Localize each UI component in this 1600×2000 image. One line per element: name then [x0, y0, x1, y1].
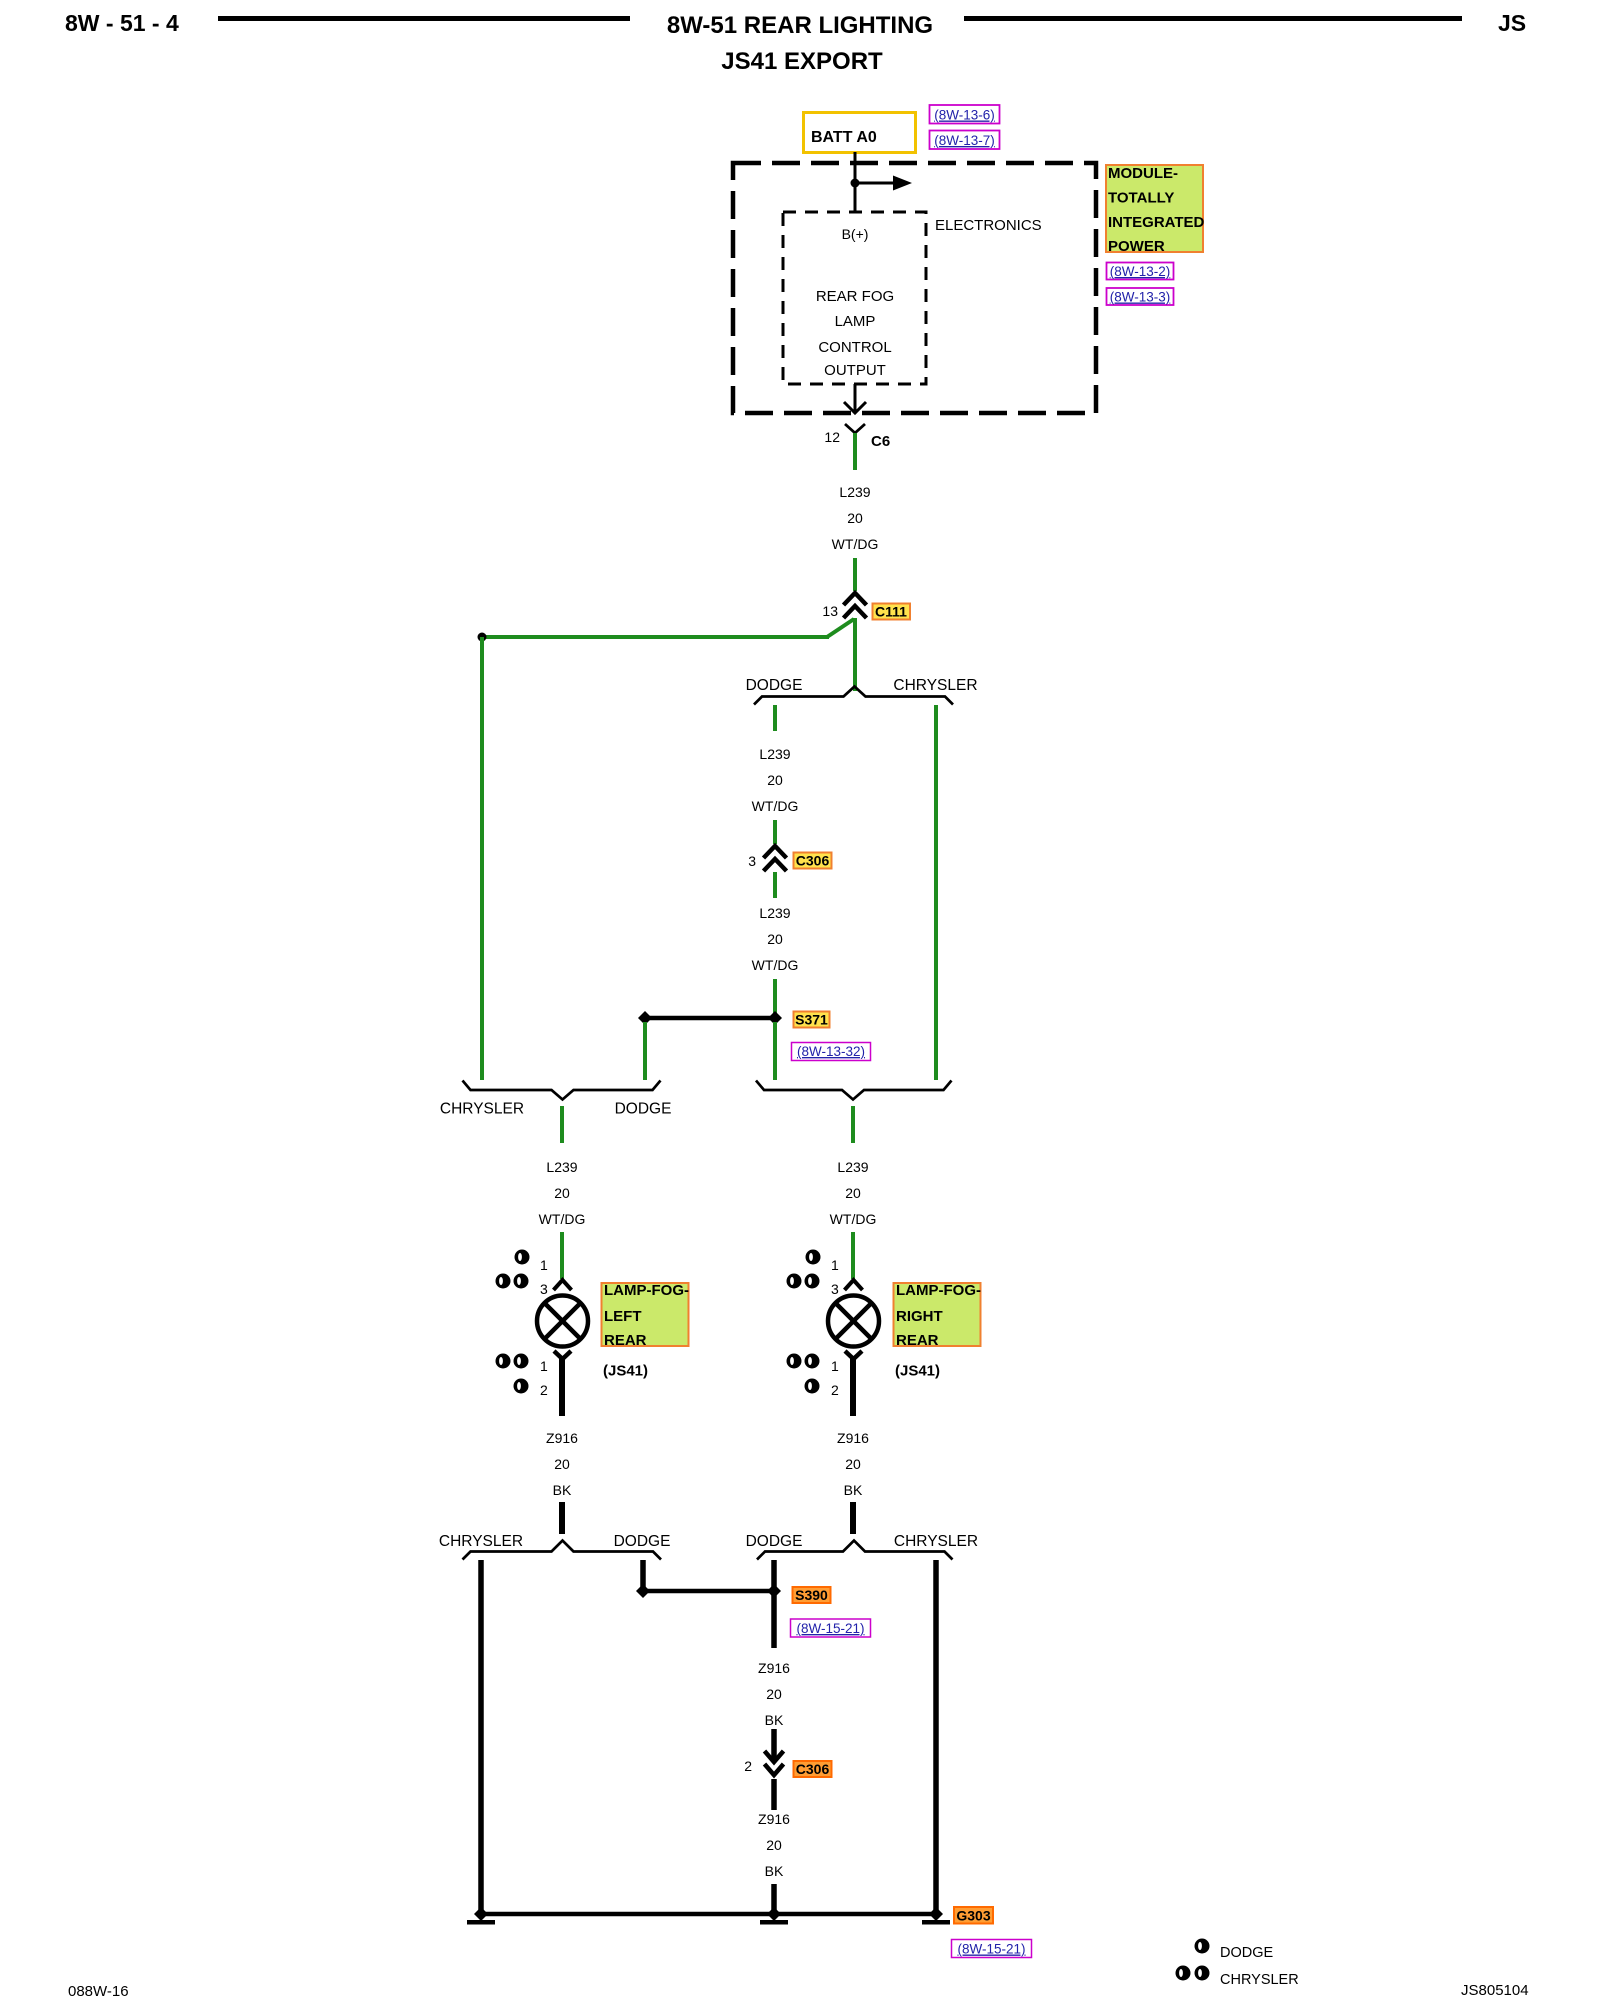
- svg-text:REAR: REAR: [604, 1332, 647, 1349]
- brace merge CHRYSLER/DODGE left lamp: [440, 1081, 671, 1118]
- svg-text:DODGE: DODGE: [615, 1101, 672, 1118]
- footer sheet number left: [68, 1983, 129, 2000]
- svg-text:REAR: REAR: [896, 1332, 939, 1349]
- svg-text:8W-51 REAR LIGHTING: 8W-51 REAR LIGHTING: [667, 12, 933, 39]
- svg-text:8W - 51 - 4: 8W - 51 - 4: [65, 10, 179, 36]
- link 8W-13-32: [792, 1043, 871, 1061]
- svg-text:BK: BK: [765, 1712, 784, 1728]
- lamp left fog rear: [537, 1280, 588, 1359]
- svg-text:1: 1: [831, 1257, 839, 1273]
- svg-text:L239: L239: [837, 1159, 868, 1175]
- svg-text:MODULE-: MODULE-: [1108, 165, 1178, 182]
- svg-text:(8W-13-2): (8W-13-2): [1110, 264, 1171, 279]
- svg-text:2: 2: [831, 1382, 839, 1398]
- wire L239 green from C6: [853, 433, 857, 470]
- svg-text:S371: S371: [795, 1012, 828, 1028]
- pin 2 right lamp bottom: [831, 1382, 839, 1398]
- svg-text:(8W-15-21): (8W-15-21): [796, 1621, 864, 1636]
- pin 1 left lamp bottom: [540, 1358, 548, 1374]
- svg-text:WT/DG: WT/DG: [832, 536, 879, 552]
- svg-text:Z916: Z916: [758, 1811, 790, 1827]
- svg-text:JS805104: JS805104: [1461, 1982, 1529, 1999]
- wire label L239 20 WT/DG right: [830, 1159, 877, 1227]
- svg-text:POWER: POWER: [1108, 238, 1165, 255]
- wire label L239 20 WT/DG: [752, 746, 799, 814]
- header rule left: [218, 16, 630, 21]
- wire: [773, 872, 777, 898]
- wire: [559, 1502, 565, 1534]
- module label MODULE-TOTALLY INTEGRATED POWER: [1106, 165, 1205, 255]
- svg-text:CHRYSLER: CHRYSLER: [1220, 1972, 1299, 1988]
- svg-text:(JS41): (JS41): [895, 1363, 940, 1380]
- connector C306 pin 3: [748, 846, 786, 871]
- svg-text:20: 20: [767, 772, 783, 788]
- brace split DODGE/CHRYSLER under C111: [746, 677, 978, 705]
- svg-text:LEFT: LEFT: [604, 1308, 642, 1325]
- ground symbol middle: [760, 1907, 788, 1925]
- node BATT A0: [804, 113, 916, 153]
- svg-text:1: 1: [540, 1257, 548, 1273]
- svg-text:BK: BK: [553, 1482, 572, 1498]
- wire: [773, 820, 777, 844]
- pin 2 left lamp bottom: [540, 1382, 548, 1398]
- svg-text:DODGE: DODGE: [746, 1533, 803, 1550]
- wire label Z916 20 BK right: [837, 1430, 869, 1498]
- svg-text:LAMP-FOG-: LAMP-FOG-: [604, 1282, 689, 1299]
- svg-text:(8W-15-21): (8W-15-21): [957, 1942, 1025, 1957]
- svg-text:BK: BK: [844, 1482, 863, 1498]
- pin icons left lamp top: [496, 1250, 530, 1289]
- lamp right fog rear: [828, 1280, 879, 1359]
- svg-text:2: 2: [744, 1758, 752, 1774]
- header JS top right: [1498, 10, 1526, 36]
- svg-text:(8W-13-7): (8W-13-7): [934, 133, 995, 148]
- connector C111 pin 13: [822, 593, 866, 619]
- splice S390: [636, 1584, 781, 1598]
- wire label L239 20 WT/DG left: [539, 1159, 586, 1227]
- link 8W-15-21 lower: [952, 1940, 1032, 1958]
- wire BATT A0 to B(+): [854, 152, 857, 212]
- svg-text:20: 20: [766, 1686, 782, 1702]
- svg-text:L239: L239: [546, 1159, 577, 1175]
- svg-text:CHRYSLER: CHRYSLER: [439, 1533, 523, 1550]
- wire chrysler branch right long: [934, 705, 938, 1080]
- svg-text:13: 13: [822, 603, 838, 619]
- footer drawing number right: [1461, 1982, 1529, 1999]
- header rule right: [964, 16, 1462, 21]
- link 8W-13-6: [930, 105, 1000, 124]
- svg-text:20: 20: [766, 1837, 782, 1853]
- svg-text:L239: L239: [759, 746, 790, 762]
- page number top left: [65, 10, 179, 36]
- svg-text:BK: BK: [765, 1863, 784, 1879]
- svg-text:C306: C306: [796, 853, 830, 869]
- wire dodge branch: [773, 705, 777, 731]
- wire: [851, 1232, 855, 1279]
- svg-text:20: 20: [554, 1185, 570, 1201]
- wire: [771, 1779, 777, 1810]
- svg-text:(8W-13-6): (8W-13-6): [934, 108, 995, 123]
- pin 3 left lamp: [540, 1281, 548, 1297]
- svg-text:WT/DG: WT/DG: [752, 798, 799, 814]
- svg-text:CHRYSLER: CHRYSLER: [440, 1101, 524, 1118]
- wire label Z916 20 BK bottom: [758, 1811, 790, 1879]
- label C306: [794, 853, 832, 869]
- svg-text:C306: C306: [796, 1761, 830, 1777]
- wire dodge right stub: [771, 1560, 777, 1587]
- svg-text:Z916: Z916: [546, 1430, 578, 1446]
- ground bus G303: [481, 1912, 936, 1917]
- svg-text:(8W-13-32): (8W-13-32): [797, 1044, 865, 1059]
- wire: [771, 1729, 777, 1762]
- svg-text:TOTALLY: TOTALLY: [1108, 190, 1174, 207]
- wire stub below left splice diamond: [643, 1022, 647, 1080]
- label LAMP-FOG-LEFT REAR: [602, 1282, 689, 1380]
- module U1 TIPM dashed box: [733, 163, 1096, 413]
- svg-text:JS41 EXPORT: JS41 EXPORT: [721, 48, 883, 75]
- link 8W-13-2: [1107, 263, 1174, 280]
- svg-text:C6: C6: [871, 433, 890, 450]
- arrow feed inside TIPM: [855, 176, 912, 191]
- legend chrysler icons: [1176, 1966, 1299, 1989]
- pin icons left lamp bottom: [496, 1354, 529, 1394]
- wire to left lamp: [560, 1106, 564, 1143]
- svg-text:WT/DG: WT/DG: [539, 1211, 586, 1227]
- svg-text:REAR FOG: REAR FOG: [816, 288, 894, 305]
- svg-text:DODGE: DODGE: [614, 1533, 671, 1550]
- svg-text:1: 1: [540, 1358, 548, 1374]
- svg-text:1: 1: [831, 1358, 839, 1374]
- pin 1 right lamp top: [831, 1257, 839, 1273]
- svg-text:CHRYSLER: CHRYSLER: [894, 1533, 978, 1550]
- svg-text:LAMP: LAMP: [835, 313, 876, 330]
- pin 1 left lamp top: [540, 1257, 548, 1273]
- svg-text:(JS41): (JS41): [603, 1363, 648, 1380]
- svg-text:L239: L239: [759, 905, 790, 921]
- wire label Z916 20 BK left: [546, 1430, 578, 1498]
- svg-text:3: 3: [540, 1281, 548, 1297]
- brace split DODGE/CHRYSLER right ground: [746, 1533, 978, 1560]
- link 8W-13-7: [930, 131, 1000, 150]
- svg-text:3: 3: [831, 1281, 839, 1297]
- page title: [667, 12, 933, 75]
- svg-text:BATT A0: BATT A0: [811, 129, 877, 146]
- link 8W-15-21 upper: [791, 1619, 871, 1637]
- svg-text:088W-16: 088W-16: [68, 1983, 129, 2000]
- wire: [771, 1884, 777, 1914]
- svg-text:G303: G303: [956, 1908, 990, 1924]
- wire left chrysler branch down: [480, 637, 484, 1080]
- pin 1 right lamp bottom: [831, 1358, 839, 1374]
- wire Z916 below right lamp: [850, 1358, 856, 1416]
- connector C6 pin 12: [824, 424, 890, 450]
- svg-text:WT/DG: WT/DG: [752, 957, 799, 973]
- svg-text:CONTROL: CONTROL: [818, 339, 891, 356]
- ground symbol right: [922, 1907, 950, 1925]
- wire: [773, 979, 777, 1013]
- svg-text:Z916: Z916: [837, 1430, 869, 1446]
- svg-text:ELECTRONICS: ELECTRONICS: [935, 217, 1042, 234]
- brace split CHRYSLER/DODGE left ground: [439, 1533, 670, 1560]
- wire below C111: [853, 618, 857, 691]
- label C306 lower: [794, 1761, 832, 1777]
- wire dodge left stub: [640, 1560, 646, 1587]
- svg-text:DODGE: DODGE: [746, 677, 803, 694]
- svg-text:2: 2: [540, 1382, 548, 1398]
- svg-text:L239: L239: [839, 484, 870, 500]
- svg-text:OUTPUT: OUTPUT: [824, 362, 886, 379]
- wire horizontal to left branch: [482, 635, 829, 639]
- link 8W-13-3: [1107, 288, 1174, 305]
- pin icons right lamp top: [787, 1250, 821, 1289]
- wire: [850, 1502, 856, 1534]
- label LAMP-FOG-RIGHT REAR: [894, 1282, 981, 1380]
- svg-text:20: 20: [554, 1456, 570, 1472]
- brace merge right lamp: [756, 1081, 952, 1100]
- svg-text:LAMP-FOG-: LAMP-FOG-: [896, 1282, 981, 1299]
- svg-text:(8W-13-3): (8W-13-3): [1110, 290, 1171, 305]
- legend dodge icon: [1195, 1939, 1274, 1962]
- wire Z916 below left lamp: [559, 1358, 565, 1416]
- junction dot inside TIPM: [851, 179, 860, 188]
- wire: [560, 1232, 564, 1279]
- svg-text:B(+): B(+): [842, 226, 869, 242]
- svg-text:20: 20: [845, 1185, 861, 1201]
- wire to right lamp: [851, 1106, 855, 1143]
- label S390: [793, 1587, 831, 1603]
- svg-text:20: 20: [845, 1456, 861, 1472]
- wire branch diagonal to left: [827, 619, 854, 637]
- svg-text:WT/DG: WT/DG: [830, 1211, 877, 1227]
- pin icons right lamp bottom: [787, 1354, 820, 1394]
- ground symbol left: [467, 1907, 495, 1925]
- wire below S371: [773, 1022, 777, 1080]
- label S371: [794, 1012, 830, 1028]
- wire chrysler right long to ground: [933, 1560, 939, 1914]
- svg-text:C111: C111: [875, 604, 907, 620]
- wire label L239 20 WT/DG: [752, 905, 799, 973]
- wire label L239 20 WT/DG: [832, 484, 879, 552]
- connector C306 pin 2: [744, 1751, 783, 1775]
- svg-text:20: 20: [767, 931, 783, 947]
- wire label Z916 20 BK: [758, 1660, 790, 1728]
- wire control output down: [844, 384, 866, 413]
- svg-text:20: 20: [847, 510, 863, 526]
- junction dot left corner: [478, 633, 487, 642]
- svg-text:CHRYSLER: CHRYSLER: [893, 677, 977, 694]
- splice S371: [638, 1011, 782, 1025]
- pin B(+) inner dashed box: [783, 212, 926, 384]
- label C111: [873, 604, 911, 620]
- svg-text:INTEGRATED: INTEGRATED: [1108, 214, 1205, 231]
- svg-text:JS: JS: [1498, 10, 1526, 36]
- svg-text:12: 12: [824, 429, 840, 445]
- svg-text:RIGHT: RIGHT: [896, 1308, 943, 1325]
- svg-text:S390: S390: [795, 1587, 828, 1603]
- wire chrysler left long to ground: [478, 1560, 484, 1914]
- svg-text:DODGE: DODGE: [1220, 1945, 1274, 1961]
- svg-text:Z916: Z916: [758, 1660, 790, 1676]
- pin 3 right lamp: [831, 1281, 839, 1297]
- wire: [853, 558, 857, 591]
- svg-text:3: 3: [748, 853, 756, 869]
- wire below S390: [771, 1595, 777, 1648]
- label G303: [954, 1907, 993, 1924]
